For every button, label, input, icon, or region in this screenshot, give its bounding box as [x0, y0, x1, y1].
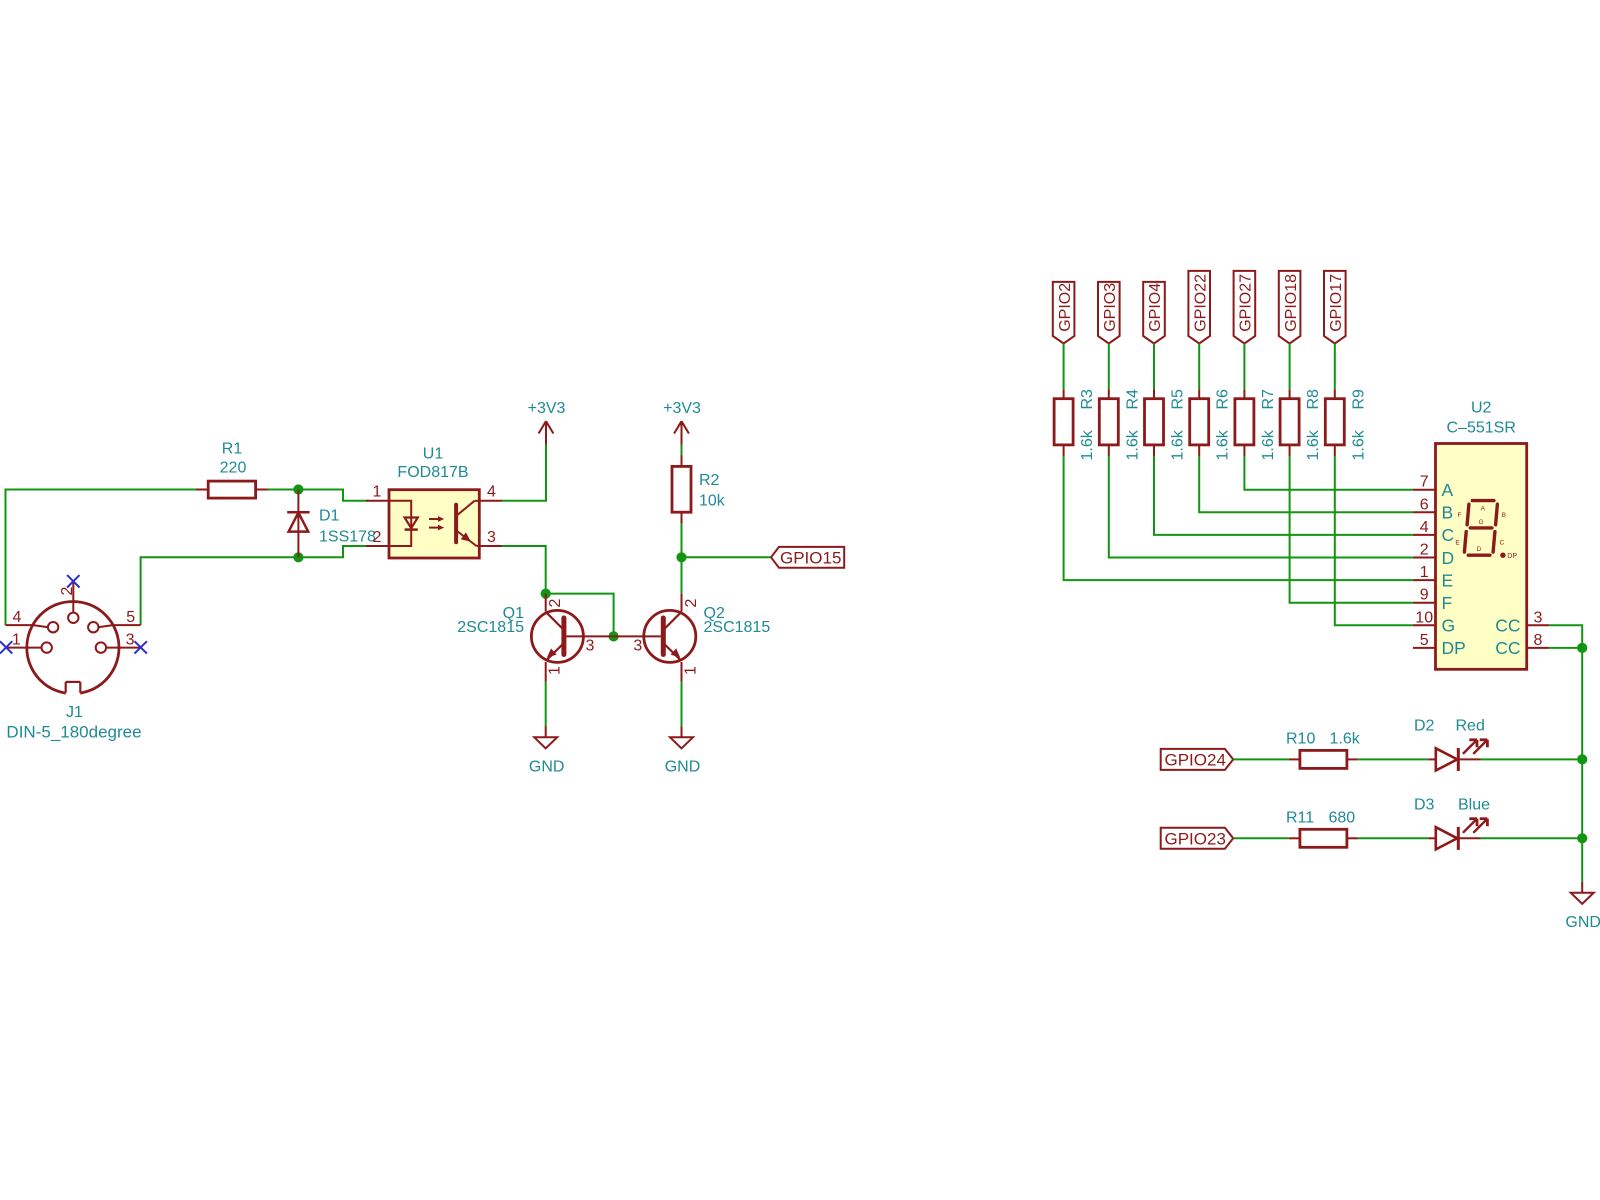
- svg-text:B: B: [1442, 503, 1454, 523]
- value 10k: [699, 493, 726, 510]
- junction: [1577, 643, 1587, 653]
- label D1: [319, 508, 340, 525]
- wire: [681, 522, 683, 593]
- svg-text:5: 5: [1420, 632, 1429, 649]
- label U2: [1471, 400, 1492, 417]
- wire: [1481, 758, 1583, 760]
- svg-text:GPIO22: GPIO22: [1192, 274, 1209, 332]
- svg-text:GND: GND: [529, 759, 565, 776]
- svg-text:2: 2: [683, 599, 700, 608]
- svg-text:R11: R11: [1286, 809, 1314, 826]
- svg-text:GPIO18: GPIO18: [1283, 274, 1300, 332]
- svg-text:GPIO17: GPIO17: [1328, 274, 1345, 332]
- wire: [1549, 647, 1582, 649]
- svg-text:U2: U2: [1471, 400, 1492, 417]
- svg-text:B: B: [1502, 512, 1506, 519]
- label R1: [222, 441, 243, 458]
- svg-text:R2: R2: [699, 472, 720, 489]
- svg-text:D3: D3: [1414, 796, 1435, 813]
- wire: [1549, 625, 1582, 648]
- svg-text:D: D: [1477, 546, 1482, 553]
- svg-text:4: 4: [1420, 519, 1429, 536]
- pin 3: [633, 637, 642, 654]
- svg-text:1.6k: 1.6k: [1079, 429, 1096, 460]
- label U1: [423, 446, 444, 463]
- label GPIO27: [1234, 271, 1256, 344]
- svg-text:1.6k: 1.6k: [1350, 429, 1367, 460]
- svg-text:GND: GND: [1565, 914, 1600, 931]
- wire: [1481, 837, 1583, 839]
- wire: [1064, 456, 1413, 580]
- svg-text:4: 4: [487, 484, 496, 501]
- svg-text:GPIO2: GPIO2: [1057, 283, 1074, 332]
- resistor R4: [1099, 389, 1118, 456]
- resistor R10: [1289, 750, 1358, 768]
- label Q2: [704, 605, 725, 622]
- svg-text:5: 5: [126, 609, 135, 626]
- svg-text:G: G: [1442, 616, 1456, 636]
- svg-text:1.6k: 1.6k: [1260, 429, 1277, 460]
- svg-text:GPIO15: GPIO15: [780, 548, 841, 567]
- svg-text:3: 3: [586, 637, 595, 654]
- label R9: [1350, 389, 1367, 410]
- label GPIO3: [1098, 282, 1120, 344]
- wire: [502, 445, 546, 501]
- pin 3: [586, 637, 595, 654]
- svg-text:8: 8: [1534, 632, 1543, 649]
- resistor R8: [1280, 389, 1299, 456]
- value Red: [1456, 718, 1485, 735]
- label R6: [1215, 389, 1232, 410]
- pin 4: [487, 484, 496, 501]
- pin 1: [683, 666, 700, 675]
- value 680: [1329, 809, 1356, 826]
- label Q1: [503, 605, 524, 622]
- wire: [1154, 456, 1413, 535]
- label R5: [1170, 389, 1187, 410]
- resistor R2: [672, 455, 691, 523]
- svg-text:1SS178: 1SS178: [319, 529, 376, 546]
- svg-text:2SC1815: 2SC1815: [457, 619, 524, 636]
- pin 3 (CC): [1495, 609, 1549, 635]
- wire: [681, 682, 683, 727]
- label GPIO22: [1188, 271, 1210, 344]
- label GPIO2: [1053, 282, 1075, 344]
- svg-text:GPIO4: GPIO4: [1147, 283, 1164, 332]
- label R10: [1286, 731, 1315, 748]
- svg-text:7: 7: [1420, 474, 1429, 491]
- 7-segment digit: [1455, 501, 1517, 560]
- wire: [1358, 837, 1428, 839]
- resistor R9: [1325, 389, 1344, 456]
- wire: [1233, 758, 1289, 760]
- svg-text:10k: 10k: [699, 493, 726, 510]
- svg-text:1.6k: 1.6k: [1330, 731, 1361, 748]
- svg-text:+3V3: +3V3: [663, 400, 701, 417]
- junction: [609, 631, 619, 641]
- wire: [1290, 456, 1413, 603]
- wire: [1335, 456, 1413, 625]
- svg-text:2: 2: [373, 529, 382, 546]
- label D3: [1414, 796, 1435, 813]
- svg-text:DP: DP: [1442, 638, 1466, 658]
- wire: [1334, 344, 1336, 390]
- pin 9 (F): [1413, 587, 1452, 613]
- value 1.6k: [1330, 731, 1361, 748]
- label GPIO17: [1324, 271, 1346, 344]
- resistor R5: [1145, 389, 1164, 456]
- wire: [545, 682, 547, 727]
- svg-text:E: E: [1442, 570, 1454, 590]
- svg-text:+3V3: +3V3: [528, 400, 566, 417]
- pin 1: [373, 484, 382, 501]
- wire: [546, 594, 614, 637]
- svg-text:GPIO23: GPIO23: [1165, 829, 1226, 848]
- svg-text:2: 2: [1420, 542, 1429, 559]
- label GPIO15: [771, 547, 844, 568]
- value 1.6k: [1079, 429, 1096, 460]
- display U2 (C-551SR): [1436, 444, 1527, 670]
- pin 5 (DP): [1413, 632, 1466, 658]
- svg-text:10: 10: [1415, 609, 1433, 626]
- svg-text:R4: R4: [1124, 389, 1141, 410]
- svg-text:9: 9: [1420, 587, 1429, 604]
- svg-text:Blue: Blue: [1458, 796, 1490, 813]
- value DIN-5_180degree: [6, 723, 141, 742]
- svg-text:1.6k: 1.6k: [1124, 429, 1141, 460]
- transistor Q2: [614, 594, 696, 682]
- LED D2: [1428, 740, 1487, 771]
- svg-text:D: D: [1442, 548, 1455, 568]
- resistor R1: [196, 481, 268, 498]
- svg-text:C: C: [1442, 525, 1455, 545]
- pin 6 (B): [1413, 496, 1453, 522]
- svg-text:6: 6: [1420, 496, 1429, 513]
- label R7: [1260, 389, 1277, 410]
- svg-text:CC: CC: [1495, 638, 1520, 658]
- svg-text:DP: DP: [1507, 553, 1517, 560]
- svg-text:R3: R3: [1079, 389, 1096, 410]
- svg-text:3: 3: [126, 631, 135, 648]
- wire: [681, 445, 683, 457]
- wire: [1109, 456, 1413, 558]
- label D2: [1414, 718, 1435, 735]
- svg-text:1: 1: [373, 484, 382, 501]
- svg-text:F: F: [1442, 593, 1453, 613]
- pin 10 (G): [1413, 609, 1455, 635]
- wire: [1198, 344, 1200, 390]
- ground: [1565, 882, 1600, 931]
- label GPIO4: [1143, 282, 1165, 344]
- svg-text:R1: R1: [222, 441, 243, 458]
- value FOD817B: [397, 464, 468, 481]
- label R2: [699, 472, 720, 489]
- no-connect J1 pin 2: [67, 575, 79, 587]
- svg-text:U1: U1: [423, 446, 444, 463]
- svg-text:2SC1815: 2SC1815: [704, 619, 771, 636]
- wire: [141, 546, 367, 625]
- junction: [293, 484, 303, 494]
- wire: [1358, 758, 1428, 760]
- label GPIO23: [1161, 828, 1234, 849]
- wire: [1243, 344, 1245, 390]
- svg-text:R6: R6: [1215, 389, 1232, 410]
- svg-text:GPIO24: GPIO24: [1165, 751, 1226, 770]
- value 1.6k: [1260, 429, 1277, 460]
- label R11: [1286, 809, 1314, 826]
- pin 2: [547, 599, 564, 608]
- junction: [541, 589, 551, 599]
- svg-text:1.6k: 1.6k: [1170, 429, 1187, 460]
- svg-text:GPIO3: GPIO3: [1102, 283, 1119, 332]
- diode D1: [287, 490, 309, 558]
- transistor Q1: [531, 594, 613, 682]
- wire: [682, 556, 772, 558]
- svg-text:GPIO27: GPIO27: [1238, 274, 1255, 332]
- svg-text:D2: D2: [1414, 718, 1435, 735]
- svg-text:3: 3: [633, 637, 642, 654]
- svg-text:R5: R5: [1170, 389, 1187, 410]
- svg-text:CC: CC: [1495, 616, 1520, 636]
- label R4: [1124, 389, 1141, 410]
- svg-text:680: 680: [1329, 809, 1356, 826]
- svg-text:C–551SR: C–551SR: [1447, 420, 1516, 437]
- label R3: [1079, 389, 1096, 410]
- wire: [1289, 344, 1291, 390]
- svg-text:E: E: [1455, 539, 1460, 546]
- power +3V3: [528, 400, 566, 445]
- value 220: [220, 460, 247, 477]
- wire: [1199, 456, 1413, 512]
- svg-text:GND: GND: [665, 759, 701, 776]
- svg-text:1.6k: 1.6k: [1215, 429, 1232, 460]
- resistor R7: [1235, 389, 1254, 456]
- svg-text:2: 2: [547, 599, 564, 608]
- pin 4 (C): [1413, 519, 1454, 545]
- svg-text:Red: Red: [1456, 718, 1485, 735]
- value 2SC1815: [457, 619, 524, 636]
- wire: [1581, 648, 1583, 882]
- pin 2: [373, 529, 382, 546]
- value 1.6k: [1350, 429, 1367, 460]
- wire: [1244, 456, 1413, 490]
- value 1.6k: [1124, 429, 1141, 460]
- wire: [502, 546, 546, 594]
- no-connect J1 pin 1: [0, 641, 12, 653]
- wire: [1233, 837, 1289, 839]
- svg-text:FOD817B: FOD817B: [397, 464, 468, 481]
- svg-text:A: A: [1481, 506, 1486, 513]
- resistor R3: [1054, 389, 1073, 456]
- pin 1 (E): [1413, 564, 1453, 590]
- wire: [1063, 344, 1065, 390]
- label GPIO18: [1279, 271, 1301, 344]
- svg-text:1: 1: [1420, 564, 1429, 581]
- svg-text:1.6k: 1.6k: [1305, 429, 1322, 460]
- svg-text:R8: R8: [1305, 389, 1322, 410]
- wire: [6, 490, 201, 626]
- value 1.6k: [1215, 429, 1232, 460]
- svg-text:3: 3: [487, 529, 496, 546]
- pin 1: [547, 666, 564, 675]
- value C-551SR: [1447, 420, 1516, 437]
- junction: [293, 552, 303, 562]
- pin 7 (A): [1413, 474, 1454, 500]
- svg-text:G: G: [1478, 519, 1483, 526]
- value 1SS178: [319, 529, 376, 546]
- connector J1: [6, 582, 141, 696]
- label GPIO24: [1161, 749, 1234, 770]
- svg-text:F: F: [1458, 512, 1462, 519]
- wire: [1153, 344, 1155, 390]
- svg-text:R9: R9: [1350, 389, 1367, 410]
- svg-text:1: 1: [683, 666, 700, 675]
- svg-text:1: 1: [12, 631, 21, 648]
- svg-text:J1: J1: [66, 704, 83, 721]
- junction: [1577, 754, 1587, 764]
- junction: [1577, 833, 1587, 843]
- resistor R11: [1289, 829, 1358, 847]
- value 1.6k: [1170, 429, 1187, 460]
- pin 2: [683, 599, 700, 608]
- svg-text:1: 1: [547, 666, 564, 675]
- label R8: [1305, 389, 1322, 410]
- svg-text:R10: R10: [1286, 731, 1315, 748]
- ground: [529, 727, 565, 776]
- pin 2 (D): [1413, 542, 1454, 568]
- op-amp U1 (optocoupler FOD817B): [366, 490, 502, 558]
- svg-text:D1: D1: [319, 508, 340, 525]
- svg-text:R7: R7: [1260, 389, 1277, 410]
- value Blue: [1458, 796, 1490, 813]
- pin 8 (CC): [1495, 632, 1549, 658]
- wire: [1108, 344, 1110, 390]
- value 2SC1815: [704, 619, 771, 636]
- svg-text:DIN-5_180degree: DIN-5_180degree: [6, 723, 141, 742]
- svg-text:3: 3: [1534, 609, 1543, 626]
- pin 3: [487, 529, 496, 546]
- svg-text:A: A: [1442, 480, 1454, 500]
- power +3V3: [663, 400, 701, 445]
- value 1.6k: [1305, 429, 1322, 460]
- no-connect J1 pin 3: [135, 641, 147, 653]
- label J1: [66, 704, 83, 721]
- svg-text:4: 4: [12, 609, 21, 626]
- resistor R6: [1190, 389, 1209, 456]
- LED D3: [1428, 819, 1487, 850]
- svg-text:C: C: [1499, 539, 1504, 546]
- ground: [665, 727, 701, 776]
- junction: [676, 552, 686, 562]
- wire: [263, 490, 367, 501]
- svg-text:220: 220: [220, 460, 247, 477]
